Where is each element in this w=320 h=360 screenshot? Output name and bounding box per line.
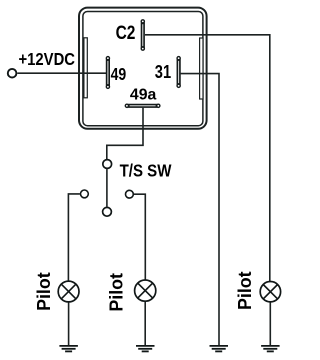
svg-text:31: 31 bbox=[155, 61, 171, 82]
svg-text:Pilot: Pilot bbox=[107, 273, 127, 312]
svg-text:+12VDC: +12VDC bbox=[19, 49, 76, 69]
svg-text:Pilot: Pilot bbox=[235, 271, 255, 310]
svg-text:C2: C2 bbox=[116, 22, 136, 44]
svg-text:Pilot: Pilot bbox=[34, 272, 54, 311]
svg-text:49a: 49a bbox=[130, 87, 157, 104]
svg-text:T/S SW: T/S SW bbox=[120, 161, 172, 181]
svg-text:49: 49 bbox=[111, 64, 127, 84]
